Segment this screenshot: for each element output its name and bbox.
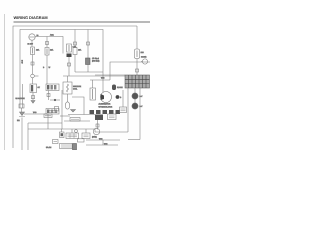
- tick x103: [102, 140, 104, 145]
- wire JB1 down right: [139, 88, 141, 140]
- wire ignition down: [31, 40, 33, 47]
- svg-text:B-W: B-W: [21, 60, 24, 64]
- bus y145: [86, 144, 118, 146]
- relay box K1: [30, 84, 37, 93]
- bus wire y72: [75, 71, 103, 73]
- wire corner bottom right: [128, 139, 140, 141]
- wire L1 to L2: [134, 99, 136, 103]
- fan connector dark: [95, 115, 103, 121]
- svg-text:W/ REGULATOR: W/ REGULATOR: [99, 106, 113, 109]
- wire alternator feed: [92, 80, 94, 88]
- alternator A1: [101, 92, 112, 103]
- wires bus to boxes: [61, 129, 63, 132]
- svg-text:AM1: AM1: [50, 34, 54, 37]
- wire K1 down: [32, 93, 34, 101]
- box B4: [53, 140, 59, 144]
- connector C8: [96, 124, 99, 127]
- connector junction J1: [31, 74, 35, 78]
- connector row CR1: [90, 110, 121, 114]
- frame outer top wire: [13, 26, 137, 148]
- box U3: [46, 109, 59, 115]
- alternator box: [90, 88, 96, 100]
- svg-text:5A GAUGE: 5A GAUGE: [16, 97, 26, 100]
- fan connector outline: [108, 114, 117, 120]
- svg-text:IG SW: IG SW: [28, 43, 34, 46]
- wire F3 down: [68, 57, 70, 76]
- wire x22 down: [21, 118, 23, 151]
- wire x28 down: [27, 123, 29, 150]
- loop corner wire: [28, 122, 62, 124]
- box text marks: [45, 109, 126, 147]
- svg-text:NOISE: NOISE: [117, 86, 123, 89]
- fan motor M1: [93, 128, 99, 134]
- connector tick T2: [68, 63, 71, 66]
- small box B1: [60, 132, 65, 138]
- wire bus y114 left: [24, 114, 48, 129]
- small box U6: [55, 107, 59, 112]
- node N1: [54, 99, 56, 101]
- svg-text:IE1: IE1: [17, 119, 20, 122]
- wire U4 down: [67, 94, 69, 102]
- wire y116: [60, 115, 70, 117]
- svg-text:COIL: COIL: [73, 88, 77, 91]
- long bus y129: [28, 129, 128, 132]
- ground G1: [31, 101, 35, 104]
- wide box B3: [82, 133, 90, 139]
- horn SYM: [142, 59, 147, 64]
- lamp L2: [132, 103, 138, 109]
- fuse F4 column: [74, 30, 76, 48]
- connector C6: [87, 42, 90, 45]
- header rule: [14, 21, 151, 23]
- wire JB1 down mid: [134, 88, 136, 94]
- connector C7: [19, 104, 24, 108]
- connector C5: [74, 42, 77, 45]
- fuse F1: [31, 47, 35, 55]
- connector C2: [46, 42, 49, 45]
- wire x123: [122, 90, 124, 107]
- frame inner top wire: [20, 30, 103, 109]
- label box LB1: [44, 114, 52, 118]
- junction block JB1: [125, 75, 150, 88]
- bus wire y114.5: [68, 114, 95, 116]
- wire JB1 down left: [127, 88, 129, 132]
- bus wire y76: [63, 75, 125, 77]
- wire AM1: [35, 37, 63, 45]
- loop wire right of coil: [72, 97, 84, 115]
- connector ring: [75, 130, 78, 133]
- svg-text:ALTERNATOR: ALTERNATOR: [99, 103, 111, 106]
- bus wire y80: [90, 79, 110, 81]
- ground G3: [20, 112, 25, 116]
- wire F2 down: [46, 55, 48, 84]
- fuse F6 right: [135, 49, 140, 59]
- wire F4 down: [74, 55, 76, 73]
- page left edge line: [4, 14, 6, 150]
- connector tick T1: [31, 62, 34, 65]
- bus y140: [86, 139, 120, 141]
- ignition coil box U2: [46, 84, 59, 91]
- fuse F2: [45, 48, 49, 56]
- label box LB2: [70, 118, 80, 122]
- wire to coil: [67, 76, 69, 82]
- wire fan down: [97, 120, 99, 130]
- svg-text:W: W: [49, 66, 51, 69]
- hatch H1: [73, 144, 77, 151]
- wire FL1 down: [87, 65, 89, 73]
- wire right drop: [136, 26, 138, 49]
- ground arrow G2: [71, 110, 76, 113]
- fuse F5 column: [87, 30, 89, 59]
- capsule R1: [112, 85, 116, 91]
- wire F1 down: [32, 55, 34, 75]
- fusible link FL2 oval: [65, 102, 69, 109]
- svg-text:(FAN): (FAN): [92, 136, 97, 139]
- wire y62 right: [110, 62, 150, 80]
- fuse F2 column: [46, 37, 48, 48]
- bus wire y75 to block: [95, 74, 125, 76]
- fuse F4: [73, 48, 77, 55]
- alternator wedge: [101, 94, 105, 100]
- fusible link FL1 hatched: [86, 58, 91, 65]
- connector C3: [47, 94, 50, 97]
- box B5: [60, 144, 73, 149]
- wire F6 down: [136, 59, 138, 76]
- wire y121: [64, 120, 90, 122]
- connector C1: [32, 96, 35, 99]
- coil box U4: [63, 82, 72, 94]
- fuse F3: [67, 44, 72, 52]
- lamp L1: [132, 93, 138, 99]
- svg-text:HORN: HORN: [141, 56, 147, 59]
- gauge fuse wires: [22, 84, 24, 108]
- svg-text:WIRING DIAGRAM: WIRING DIAGRAM: [14, 15, 48, 20]
- dot D1: [116, 95, 120, 99]
- svg-text:5A AM: 5A AM: [46, 146, 52, 149]
- svg-text:(RH kick): (RH kick): [92, 60, 100, 63]
- connector C4 dark: [67, 54, 72, 58]
- wire U2 down: [48, 91, 50, 101]
- box U5: [120, 107, 127, 113]
- connector tick T3: [136, 69, 139, 72]
- bus label box: [78, 139, 85, 142]
- fuse F3 column: [62, 44, 64, 54]
- wide box B2: [66, 133, 79, 139]
- wire to ground G3: [21, 108, 23, 112]
- long vertical wire x62: [61, 90, 63, 129]
- ignition switch SW1: [29, 34, 35, 40]
